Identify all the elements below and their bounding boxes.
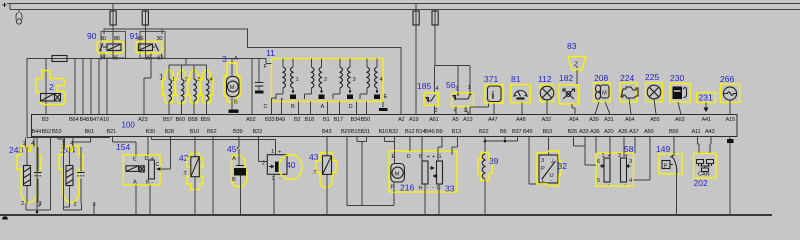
svg-text:B63: B63: [543, 129, 552, 135]
alternator 266: [720, 74, 740, 115]
svg-text:B48: B48: [80, 117, 89, 123]
svg-text:B43: B43: [322, 129, 331, 135]
svg-text:B34: B34: [351, 117, 360, 123]
svg-text:B: B: [232, 177, 236, 183]
svg-text:A5: A5: [452, 117, 459, 123]
injectors 1: [159, 65, 213, 115]
svg-text:266: 266: [720, 74, 734, 84]
fan 208: [594, 73, 611, 115]
svg-text:B45: B45: [523, 129, 532, 135]
svg-text:B57: B57: [163, 117, 172, 123]
accelerator pedal sensor 58: [574, 137, 651, 189]
svg-text:A50: A50: [644, 129, 653, 135]
svg-text:A20: A20: [604, 129, 613, 135]
svg-text:M: M: [602, 91, 607, 97]
ignition coil pack 11: [264, 48, 388, 110]
svg-text:B16: B16: [379, 129, 388, 135]
svg-text:1: 1: [296, 77, 299, 83]
wire B29 ground: [347, 137, 394, 206]
lamp 112: [538, 74, 554, 115]
fuse F2: [144, 10, 146, 42]
svg-text:B58: B58: [188, 117, 197, 123]
svg-text:P: P: [541, 166, 545, 172]
svg-text:A54: A54: [569, 117, 578, 123]
injector coil 2: [175, 69, 188, 104]
wire rail drop to heater sub-bus: [26, 59, 28, 138]
svg-text:B23: B23: [253, 129, 262, 135]
svg-text:B17: B17: [334, 117, 343, 123]
svg-text:B46: B46: [425, 129, 434, 135]
svg-text:A41: A41: [702, 117, 711, 123]
svg-text:B52: B52: [42, 129, 51, 135]
transformer T4: [360, 59, 380, 100]
svg-text:B31: B31: [361, 129, 370, 135]
svg-text:D: D: [145, 156, 149, 162]
lambda sensor 243: [9, 139, 42, 207]
svg-text:56: 56: [446, 80, 456, 90]
svg-text:A: A: [321, 104, 325, 110]
svg-text:86: 86: [138, 36, 144, 42]
svg-text:C: C: [264, 104, 268, 110]
svg-text:A37: A37: [629, 129, 638, 135]
svg-text:B: B: [234, 100, 238, 106]
engine icon 224: [620, 73, 638, 115]
svg-text:B22: B22: [479, 129, 488, 135]
svg-text:C: C: [155, 162, 159, 168]
wire drop B48: [82, 59, 84, 115]
lamp 225: [645, 72, 663, 115]
svg-text:B59: B59: [201, 117, 210, 123]
relay 90: [87, 31, 126, 62]
svg-text:D: D: [407, 154, 411, 160]
svg-text:i: i: [492, 91, 495, 102]
svg-text:185: 185: [417, 81, 431, 91]
lambda sensor 244: [59, 139, 96, 208]
svg-text:E: E: [384, 94, 388, 100]
svg-text:B2: B2: [294, 117, 301, 123]
fuse F5 on output rail: [52, 56, 67, 62]
svg-text:86: 86: [114, 36, 120, 42]
fuse F3: [415, 4, 417, 115]
compressor clutch 182: [559, 73, 579, 115]
switch 185: [417, 81, 439, 115]
svg-text:208: 208: [594, 73, 608, 83]
knock sensor 45: [213, 137, 247, 216]
svg-text:A47: A47: [488, 117, 497, 123]
fuse F4: [434, 10, 436, 66]
svg-text:A2: A2: [398, 117, 405, 123]
ground bus bottom: [0, 214, 772, 216]
svg-text:B: B: [146, 180, 150, 186]
svg-text:A33: A33: [579, 129, 588, 135]
svg-text:B61: B61: [85, 129, 94, 135]
fuse F1: [112, 4, 114, 42]
svg-text:B39: B39: [233, 129, 242, 135]
svg-text:B26: B26: [568, 129, 577, 135]
svg-text:2: 2: [324, 77, 327, 83]
throttle body 216 / 33: [389, 137, 458, 216]
wire B15 B31 join: [357, 137, 367, 206]
svg-text:A61: A61: [429, 117, 438, 123]
svg-text:A11: A11: [692, 129, 701, 135]
svg-text:3: 3: [541, 158, 544, 164]
gauge 81: [511, 74, 531, 115]
svg-text:B64: B64: [69, 117, 78, 123]
injector coil 4: [200, 69, 213, 104]
svg-text:40: 40: [286, 160, 296, 170]
svg-text:M: M: [395, 171, 400, 177]
svg-text:371: 371: [484, 74, 498, 84]
svg-text:90: 90: [87, 31, 97, 41]
svg-text:4: 4: [629, 178, 632, 184]
svg-text:1: 1: [271, 149, 274, 155]
svg-text:32: 32: [558, 161, 568, 171]
svg-text:A63: A63: [675, 117, 684, 123]
ground below capacitor: [255, 91, 264, 94]
svg-text:B1: B1: [323, 117, 330, 123]
wire 244 grounds: [58, 137, 94, 216]
wire drop A16: [98, 59, 100, 115]
ECU ground pin: [729, 137, 731, 216]
motor 3 (idle actuator): [222, 54, 240, 110]
ground below motor 3: [229, 110, 239, 113]
svg-text:30: 30: [100, 36, 106, 42]
svg-text:A35: A35: [618, 129, 627, 135]
svg-text:224: 224: [620, 73, 634, 83]
svg-text:B56: B56: [669, 129, 678, 135]
svg-text:B18: B18: [305, 117, 314, 123]
svg-text:B29: B29: [341, 129, 350, 135]
svg-text:81: 81: [511, 74, 521, 84]
svg-text:B47: B47: [90, 117, 99, 123]
svg-text:A48: A48: [516, 117, 525, 123]
purge solenoid 39: [478, 137, 517, 216]
svg-text:2: 2: [21, 201, 24, 207]
svg-text:5: 5: [597, 178, 600, 184]
svg-text:1: 1: [541, 178, 544, 184]
svg-text:B62: B62: [207, 129, 216, 135]
svg-text:B32: B32: [389, 129, 398, 135]
svg-text:1: 1: [468, 85, 471, 91]
svg-text:B13: B13: [452, 129, 461, 135]
chassis ground symbol: [2, 217, 8, 220]
ECU top pin labels: [42, 117, 735, 123]
ECU 100 main box: [32, 115, 738, 137]
svg-text:202: 202: [694, 178, 708, 188]
svg-text:P: P: [664, 164, 668, 170]
svg-text:11: 11: [266, 48, 275, 58]
svg-text:B9: B9: [436, 129, 443, 135]
injector coil 3: [188, 69, 201, 104]
svg-text:A32: A32: [542, 117, 551, 123]
wire top supply rail 2: [10, 4, 800, 10]
svg-text:A52: A52: [246, 117, 255, 123]
svg-text:B: B: [291, 104, 295, 110]
svg-text:3: 3: [629, 159, 632, 165]
svg-text:B15: B15: [351, 129, 360, 135]
svg-text:A: A: [133, 180, 137, 186]
svg-text:A13: A13: [463, 117, 472, 123]
svg-text:112: 112: [538, 74, 552, 84]
svg-text:A55: A55: [650, 117, 659, 123]
svg-text:A23: A23: [138, 117, 147, 123]
coil pack pin drops: [272, 102, 367, 115]
reference arrow 231: [697, 93, 716, 113]
svg-text:216: 216: [400, 183, 414, 193]
svg-text:3: 3: [222, 54, 227, 64]
svg-text:A31: A31: [604, 117, 613, 123]
transformer T2: [305, 59, 325, 100]
relay 154: [116, 142, 160, 186]
coolant temp sensor 42: [179, 137, 203, 216]
transformer T1: [276, 59, 296, 100]
wire drop B64: [74, 59, 76, 115]
svg-text:A39: A39: [589, 117, 598, 123]
svg-text:182: 182: [559, 73, 573, 83]
svg-text:B49: B49: [276, 117, 285, 123]
svg-text:154: 154: [116, 142, 130, 152]
ECU bottom pin labels: [32, 129, 715, 135]
injector rail wire: [169, 59, 207, 66]
svg-text:230: 230: [670, 73, 684, 83]
wire top supply rail 1: [7, 3, 800, 5]
capacitor C: [251, 59, 253, 115]
svg-text:231: 231: [699, 93, 713, 103]
svg-text:1: 1: [159, 72, 164, 82]
svg-text:4: 4: [210, 77, 213, 83]
remote node 83: [567, 41, 586, 85]
svg-text:⊥: ⊥: [550, 158, 555, 165]
svg-text:149: 149: [656, 144, 670, 154]
wire B16 B32 join: [385, 137, 395, 152]
svg-text:CAN: CAN: [698, 172, 710, 178]
svg-text:2: 2: [49, 82, 54, 92]
svg-text:A43: A43: [705, 129, 714, 135]
throttle potentiometer 40: [152, 137, 303, 216]
svg-text:D: D: [349, 104, 353, 110]
air temp sensor 43: [309, 137, 336, 216]
svg-text:A15: A15: [726, 117, 735, 123]
svg-text:3: 3: [456, 86, 459, 92]
svg-text:B33: B33: [265, 117, 274, 123]
svg-text:B12: B12: [405, 129, 414, 135]
svg-text:B3: B3: [42, 117, 49, 123]
svg-text:4: 4: [436, 86, 439, 92]
svg-text:33: 33: [445, 184, 455, 194]
wire 243 grounds: [26, 137, 50, 213]
CAN connector 202: [694, 137, 717, 189]
svg-text:A16: A16: [100, 117, 109, 123]
transformer T3: [333, 59, 353, 100]
svg-text:39: 39: [489, 156, 499, 166]
svg-text:6: 6: [597, 159, 600, 165]
wire main relay output rail: [27, 58, 266, 115]
svg-text:A: A: [232, 156, 236, 162]
svg-text:B21: B21: [107, 129, 116, 135]
switch 56: [446, 80, 474, 115]
svg-text:E: E: [133, 157, 137, 163]
svg-text:A64: A64: [625, 117, 634, 123]
coil pack internal wires: [272, 98, 284, 102]
wire relay30 feed: [104, 29, 401, 115]
battery terminal symbol: [16, 10, 22, 20]
svg-text:B50: B50: [361, 117, 370, 123]
svg-text:B44: B44: [32, 129, 41, 135]
svg-text:4: 4: [380, 77, 383, 83]
svg-text:B28: B28: [165, 129, 174, 135]
fuel pump 230: [670, 73, 690, 115]
wire supply to switches 185/56: [435, 66, 471, 93]
svg-text:H: H: [419, 186, 423, 192]
svg-text:2: 2: [74, 202, 77, 208]
injector coil 1: [163, 69, 176, 104]
svg-text:B6: B6: [500, 129, 507, 135]
svg-text:30: 30: [157, 36, 163, 42]
svg-text:A19: A19: [409, 117, 418, 123]
wire sub-bus below ECU: [26, 138, 111, 140]
canister purge valve 2: [36, 59, 65, 115]
wire relay91 pins to rail / A23: [144, 54, 162, 115]
svg-text:M: M: [230, 85, 235, 91]
svg-text:B30: B30: [146, 129, 155, 135]
svg-text:A: A: [234, 56, 238, 62]
svg-text:B53: B53: [52, 129, 61, 135]
pressure switch 149: [656, 137, 682, 216]
svg-text:3: 3: [353, 77, 356, 83]
svg-text:+: +: [2, 0, 7, 10]
svg-text:45: 45: [227, 144, 237, 154]
svg-text:B60: B60: [176, 117, 185, 123]
svg-text:100: 100: [122, 121, 136, 130]
svg-text:A36: A36: [590, 129, 599, 135]
relay 91: [130, 31, 166, 62]
svg-text:B37: B37: [512, 129, 521, 135]
svg-text:B10: B10: [190, 129, 199, 135]
svg-text:83: 83: [567, 41, 577, 51]
MAP sensor 32: [529, 137, 567, 186]
wire 154 connections: [113, 137, 171, 216]
wire drop B47: [90, 59, 92, 115]
svg-text:225: 225: [645, 72, 659, 82]
svg-text:.T: .T: [182, 171, 187, 177]
indicator 371: [470, 74, 503, 115]
coil pack E ground: [382, 102, 384, 108]
svg-text:.T: .T: [312, 170, 317, 176]
